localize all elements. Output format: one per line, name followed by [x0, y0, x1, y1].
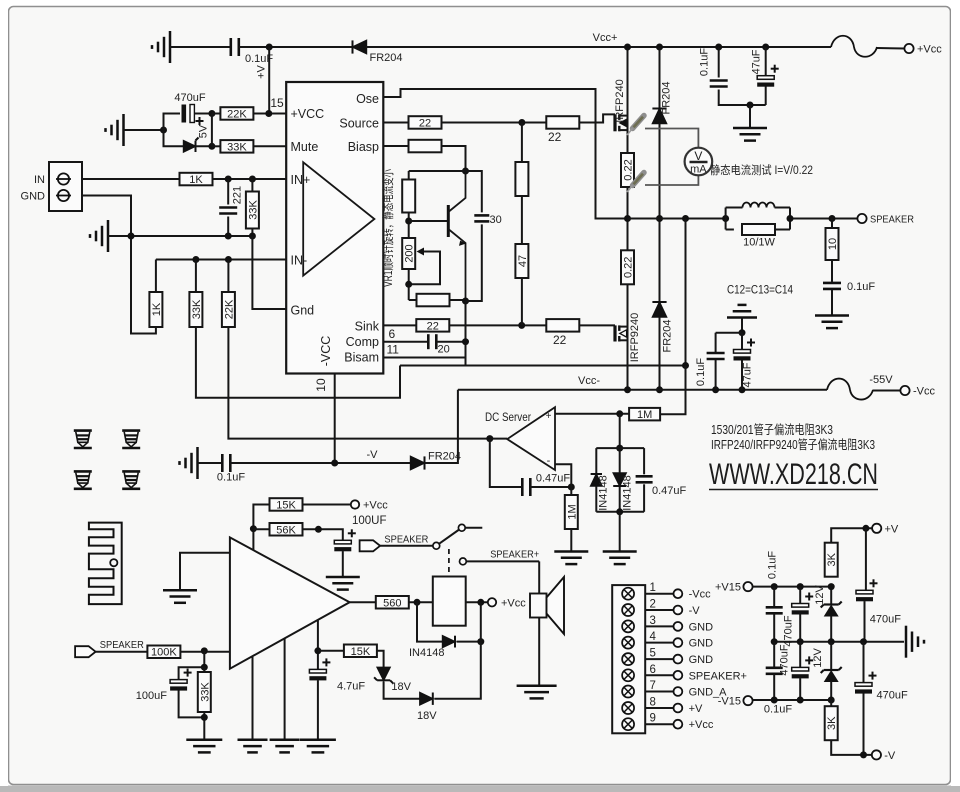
svg-text:C12=C13=C14: C12=C13=C14: [727, 283, 793, 297]
wire: [155, 260, 157, 293]
wire pin10 down: [334, 374, 336, 464]
wire: [442, 146, 466, 171]
resistor 22 (source): [409, 116, 442, 129]
wire: [227, 260, 229, 293]
svg-text:IN4148: IN4148: [409, 647, 444, 659]
svg-text:7: 7: [650, 680, 656, 692]
wire: [213, 178, 287, 180]
node: [682, 215, 689, 222]
svg-text:DC Server: DC Server: [485, 412, 531, 424]
node: [860, 638, 867, 645]
wire: [660, 366, 685, 415]
wire: [595, 486, 597, 512]
terminal screw 1: [622, 588, 634, 600]
IC internal triangle: [303, 162, 374, 275]
capacitor 4.7uF: [309, 669, 326, 673]
terminal screw 9: [622, 718, 634, 730]
node: [722, 215, 729, 222]
wire: [195, 260, 197, 293]
wire: [715, 333, 717, 352]
svg-text:+V15: +V15: [715, 582, 741, 594]
svg-text:WWW.XD218.CN: WWW.XD218.CN: [709, 458, 878, 491]
wire: [302, 529, 343, 540]
svg-text:Gnd: Gnd: [291, 304, 315, 318]
svg-text:IRFP240: IRFP240: [614, 79, 626, 122]
bottom gray strip: [0, 786, 960, 792]
svg-text:100UF: 100UF: [352, 515, 387, 527]
terminal screw 5: [622, 653, 634, 665]
ground (4.7uF): [300, 739, 336, 742]
wire: [108, 235, 252, 237]
wire module pin b: [284, 638, 286, 739]
node: [771, 697, 778, 704]
svg-text:IN+: IN+: [291, 173, 311, 187]
wire: [530, 486, 571, 488]
node: [860, 751, 867, 758]
resistor 3K (lower, vertical): [825, 706, 838, 740]
svg-text:10: 10: [827, 238, 839, 250]
pin 3 terminal GND: [674, 622, 683, 631]
wire Comp: [383, 341, 428, 343]
diode zener 5V: [184, 141, 196, 152]
diode zener 12V (upper): [824, 603, 839, 605]
svg-text:-V: -V: [689, 605, 701, 617]
svg-text:Source: Source: [339, 117, 379, 131]
node: [797, 697, 804, 704]
wire: [830, 642, 832, 670]
svg-text:33K: 33K: [227, 141, 247, 153]
pin 4 terminal GND: [674, 638, 683, 647]
svg-text:22: 22: [548, 130, 562, 144]
svg-text:VR1顺时针旋转，静态电流变小: VR1顺时针旋转，静态电流变小: [381, 169, 395, 287]
svg-text:静态电流测试 I=V/0.22: 静态电流测试 I=V/0.22: [710, 163, 813, 177]
wire module pin c / IN-: [317, 620, 319, 670]
wire clamp bottom: [596, 511, 644, 513]
wire IN- row: [156, 259, 286, 261]
capacitor 470uF (bias): [182, 105, 187, 123]
svg-text:-V15: -V15: [718, 696, 741, 708]
svg-text:Bisam: Bisam: [344, 351, 379, 365]
node: [656, 44, 663, 51]
ground (input, rotated): [107, 220, 110, 252]
node: [208, 143, 215, 150]
wire: [227, 179, 229, 205]
diode zener 12V (lower): [824, 669, 839, 671]
svg-text:FR204: FR204: [661, 81, 673, 114]
wire to Gnd pin: [252, 236, 286, 309]
svg-text:0.1uF: 0.1uF: [217, 472, 245, 484]
svg-text:-Vcc: -Vcc: [689, 589, 712, 601]
svg-text:33K: 33K: [247, 200, 259, 220]
wire: [230, 462, 410, 464]
wire zobel: [831, 219, 833, 229]
resistor 15K (zener feed): [344, 645, 377, 658]
svg-text:0.22: 0.22: [623, 159, 635, 180]
svg-text:0.1uF: 0.1uF: [695, 358, 707, 386]
resistor 33K (input, vertical): [246, 192, 259, 229]
resistor 1K (feedback, vertical): [149, 292, 162, 327]
svg-text:GND: GND: [21, 191, 46, 203]
wire: [253, 528, 270, 530]
resistor 0.22 (lower): [621, 250, 634, 284]
node output: [624, 215, 631, 222]
node: [656, 215, 663, 222]
capacitor 0.1uF (ps bottom): [773, 642, 775, 668]
wire: [619, 448, 621, 473]
svg-text:8: 8: [650, 697, 656, 709]
wire: [253, 113, 286, 115]
svg-text:47uF: 47uF: [751, 49, 763, 74]
resistor 10 (zobel): [826, 228, 839, 260]
wire: [384, 682, 420, 699]
node: [862, 525, 869, 532]
svg-text:IN4148: IN4148: [622, 475, 634, 510]
svg-text:12V: 12V: [814, 585, 826, 605]
svg-text:-VCC: -VCC: [319, 336, 333, 367]
ground (zobel): [815, 314, 849, 317]
svg-text:15: 15: [270, 96, 284, 110]
wire: [790, 218, 857, 220]
capacitor 100UF: [334, 540, 351, 544]
svg-text:+Vcc: +Vcc: [917, 44, 942, 56]
wire: [449, 324, 547, 326]
svg-text:560: 560: [383, 597, 401, 609]
svg-text:mA: mA: [690, 164, 707, 176]
capacitor 221 (input filter): [219, 206, 237, 209]
svg-text:18V: 18V: [417, 710, 437, 722]
wire: [164, 114, 181, 131]
wire to Mute pin: [253, 145, 286, 147]
svg-text:22: 22: [553, 333, 567, 347]
ground (-V, rotated): [196, 447, 199, 479]
potentiometer VR1 200: [402, 238, 415, 269]
probe (lower): [633, 173, 645, 186]
wire Vcc- rail: [458, 389, 827, 391]
wire: [659, 317, 661, 390]
capacitor 0.1uF (ps top): [773, 587, 775, 608]
wire: [715, 360, 717, 390]
terminal screw 7: [622, 686, 634, 698]
diode FR204 (-V): [411, 456, 425, 469]
svg-text:3K: 3K: [826, 716, 838, 730]
node: [331, 460, 338, 467]
svg-text:3K: 3K: [826, 552, 838, 566]
node: [616, 445, 623, 452]
wire Ose to output node: [383, 89, 627, 219]
wire: [538, 618, 540, 686]
wire: [480, 602, 482, 641]
node: [828, 638, 835, 645]
capacitor 0.1uF (zobel): [823, 282, 841, 285]
capacitor 47uF (neg rail): [734, 350, 751, 354]
node: [192, 256, 199, 263]
wire: [436, 341, 465, 343]
mounting screw 3: [74, 471, 92, 488]
node: [225, 176, 232, 183]
loudspeaker: [530, 594, 547, 618]
terminal +Vcc (15K): [351, 500, 359, 508]
wire: [251, 179, 253, 192]
node: [616, 508, 623, 515]
node: [315, 526, 322, 533]
resistor 1M (sense): [629, 408, 660, 421]
node: [414, 599, 421, 606]
wire: [194, 113, 212, 115]
fuse bump to -Vcc: [827, 379, 873, 400]
pin 1 wire: [645, 593, 673, 595]
wire: [302, 504, 350, 506]
terminal -V: [872, 750, 881, 759]
capacitor 47uF (pos rail): [765, 47, 767, 76]
node: [201, 647, 208, 654]
wire: [367, 46, 832, 48]
wire 15K2: [318, 650, 345, 652]
node: [201, 664, 208, 671]
svg-text:12V: 12V: [812, 648, 824, 668]
inductor with 10/1W: [725, 208, 727, 230]
svg-text:FR204: FR204: [662, 319, 674, 352]
resistor 33K (input shunt, vertical): [198, 672, 211, 712]
node: [656, 386, 663, 393]
node: [249, 233, 256, 240]
svg-text:FR204: FR204: [370, 52, 403, 64]
wire: [179, 690, 205, 717]
diode IN4148 (clamp B): [613, 473, 626, 486]
resistor 22 (gate low): [546, 319, 579, 332]
svg-text:1M: 1M: [566, 504, 578, 519]
svg-text:SPEAKER+: SPEAKER+: [490, 549, 539, 561]
wire module pin a: [252, 656, 254, 739]
resistor 3K (upper, vertical): [825, 543, 838, 577]
terminal screw 4: [622, 637, 634, 649]
ground (bias, rotated): [122, 114, 125, 146]
wire Bisam: [383, 357, 465, 359]
svg-text:6: 6: [389, 327, 396, 341]
resistor 15K (to +Vcc): [270, 498, 303, 511]
ground (pos rail filter): [733, 127, 767, 130]
svg-text:Vcc-: Vcc-: [578, 375, 600, 387]
resistor 22 (sink): [416, 319, 449, 332]
switch pole A: [433, 542, 440, 549]
node: [518, 119, 525, 126]
svg-text:20: 20: [438, 344, 450, 356]
terminal screw 8: [622, 702, 634, 714]
resistor 560 (relay drive): [376, 596, 409, 609]
svg-text:200: 200: [404, 244, 416, 262]
wire: [380, 545, 433, 547]
pin 8 terminal +V: [674, 704, 683, 713]
resistor 1K (input): [180, 173, 213, 186]
terminal -V15: [743, 696, 752, 705]
wire multiplier bottom to Bisam: [465, 301, 467, 366]
wire: [434, 642, 481, 699]
node: [828, 697, 835, 704]
wire: [227, 217, 229, 237]
node: [477, 638, 484, 645]
ground (module a): [238, 739, 268, 742]
wire: [465, 358, 467, 366]
resistor 47 (vertical): [515, 244, 528, 278]
pin 8 wire: [645, 707, 673, 709]
svg-text:-V: -V: [884, 750, 896, 762]
meter V/mA: [685, 148, 713, 176]
wire: [831, 290, 833, 315]
wire: [409, 299, 417, 301]
svg-text:+V: +V: [689, 703, 703, 715]
node: [249, 176, 256, 183]
svg-text:-: -: [547, 455, 551, 467]
wire: [659, 47, 661, 109]
svg-text:GND: GND: [689, 654, 714, 666]
svg-text:+Vcc: +Vcc: [689, 719, 714, 731]
svg-text:470uF: 470uF: [877, 690, 908, 702]
node: [797, 583, 804, 590]
svg-text:GND: GND: [689, 638, 714, 650]
switch pole B: [460, 558, 467, 565]
switch link (dashed): [448, 549, 450, 577]
svg-text:100K: 100K: [151, 647, 177, 659]
svg-text:0.47uF: 0.47uF: [536, 473, 571, 485]
ground (amp +input): [163, 589, 197, 592]
wire: [466, 601, 488, 603]
node: [568, 484, 575, 491]
resistor 100K: [147, 646, 180, 659]
capacitor 30: [466, 171, 482, 212]
capacitor 100uF: [170, 680, 187, 684]
node: [462, 168, 469, 175]
capacitor 0.1uF (top rail): [230, 38, 233, 56]
wire output sense down: [685, 219, 687, 366]
svg-text:56K: 56K: [276, 524, 296, 536]
wire: [749, 105, 751, 127]
svg-text:3: 3: [650, 615, 656, 627]
svg-text:SPEAKER: SPEAKER: [100, 639, 144, 651]
mounting screw 4: [122, 471, 140, 488]
wire: [873, 390, 900, 392]
node: [624, 386, 631, 393]
resistor 1M (servo, vertical): [565, 495, 578, 529]
wire 560 out: [350, 601, 376, 603]
node: [771, 638, 778, 645]
wire +V rail: [831, 528, 872, 542]
wire: [831, 260, 833, 282]
wire: [718, 47, 720, 78]
ground (top-left, rotated): [169, 31, 172, 63]
wire inverting input: [555, 464, 571, 487]
wire feedback: [253, 505, 270, 551]
svg-text:5: 5: [650, 648, 656, 660]
wire: [408, 171, 410, 179]
wire: [627, 284, 629, 390]
wire zener col top: [830, 587, 832, 605]
wire: [317, 680, 319, 739]
mounting screw 1: [74, 431, 92, 448]
svg-text:10/1W: 10/1W: [743, 237, 775, 249]
svg-text:GND: GND: [689, 621, 714, 633]
terminal +V15: [743, 582, 752, 591]
wire: [203, 651, 205, 667]
wire: [409, 601, 433, 603]
svg-text:5V: 5V: [198, 124, 210, 138]
tag SPEAKER (muting): [360, 540, 381, 551]
node: [462, 298, 469, 305]
diode IN4148 (relay): [443, 636, 456, 648]
wire: [180, 651, 230, 653]
wire: [619, 512, 621, 551]
node: [314, 647, 321, 654]
node: [477, 599, 484, 606]
svg-text:SPEAKER+: SPEAKER+: [689, 670, 747, 682]
svg-text:+V: +V: [885, 523, 899, 535]
wire GND terminal route: [82, 196, 156, 334]
wire: [595, 448, 597, 474]
svg-text:+V: +V: [256, 64, 268, 78]
wire servo +input: [555, 413, 629, 415]
svg-text:Ose: Ose: [356, 92, 379, 106]
wire IN to 1K: [82, 178, 180, 180]
resistor 22K (mute bias): [220, 107, 253, 120]
node: [616, 410, 623, 417]
node: [797, 638, 804, 645]
ground (module b): [270, 739, 300, 742]
wire Source: [383, 122, 409, 124]
node: [201, 714, 208, 721]
svg-text:Mute: Mute: [291, 140, 319, 154]
node: [462, 338, 469, 345]
wire bisam bus: [400, 365, 686, 367]
svg-text:100uF: 100uF: [136, 690, 167, 702]
wire: [96, 651, 148, 653]
svg-text:+: +: [546, 411, 552, 422]
pin 3 wire: [645, 625, 673, 627]
wire: [877, 47, 904, 50]
svg-text:1K: 1K: [151, 302, 163, 316]
node: [828, 583, 835, 590]
svg-text:22K: 22K: [227, 109, 247, 121]
svg-text:IN: IN: [34, 174, 45, 186]
wire: [196, 145, 212, 147]
pin 4 wire: [645, 642, 673, 644]
resistor (VBE lower): [417, 294, 450, 307]
ground (servo 1M): [554, 550, 588, 553]
wire mid rail: [774, 641, 904, 643]
ground (100K shunt): [186, 739, 222, 742]
wire: [659, 124, 661, 303]
node: [771, 583, 778, 590]
capacitor 470uF (ps top): [799, 587, 801, 604]
svg-text:0.1uF: 0.1uF: [847, 281, 875, 293]
wire: [441, 122, 547, 124]
diode FR204 (lower flyback): [652, 301, 666, 303]
svg-text:11: 11: [387, 343, 400, 357]
wire: [719, 90, 766, 106]
wire: [164, 130, 184, 146]
svg-text:SPEAKER: SPEAKER: [384, 534, 428, 546]
ground (ps, rotated right): [905, 626, 908, 658]
wire: [211, 114, 213, 147]
svg-text:IN-: IN-: [291, 254, 308, 268]
wire: [830, 616, 832, 642]
svg-text:IRFP240/IRFP9240管子偏流电阻3K3: IRFP240/IRFP9240管子偏流电阻3K3: [711, 437, 875, 452]
svg-text:+VCC: +VCC: [291, 107, 325, 121]
wire: [741, 333, 743, 350]
terminal screw 3: [622, 620, 634, 632]
ground (inverted, cap pair): [727, 316, 757, 319]
terminal +Vcc: [904, 44, 913, 53]
probe (upper): [633, 116, 645, 129]
node pin15: [265, 110, 272, 117]
resistor 22 (gate high): [546, 116, 579, 129]
